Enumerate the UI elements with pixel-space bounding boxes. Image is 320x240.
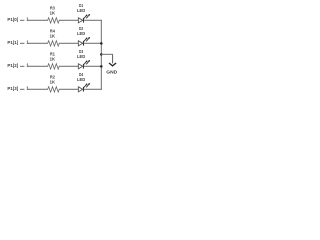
svg-text:1K: 1K xyxy=(50,56,56,61)
svg-text:P1[1]: P1[1] xyxy=(7,40,18,45)
svg-text:1K: 1K xyxy=(50,33,56,38)
svg-text:1K: 1K xyxy=(50,10,56,15)
svg-text:LED: LED xyxy=(77,77,86,82)
svg-text:P1[3]: P1[3] xyxy=(7,86,18,91)
svg-text:LED: LED xyxy=(77,54,86,59)
svg-text:LED: LED xyxy=(77,8,86,13)
svg-text:1K: 1K xyxy=(50,79,56,84)
svg-text:GND: GND xyxy=(106,69,118,74)
svg-text:LED: LED xyxy=(77,31,86,36)
svg-text:P1[0]: P1[0] xyxy=(7,17,18,22)
svg-text:P1[2]: P1[2] xyxy=(7,63,18,68)
